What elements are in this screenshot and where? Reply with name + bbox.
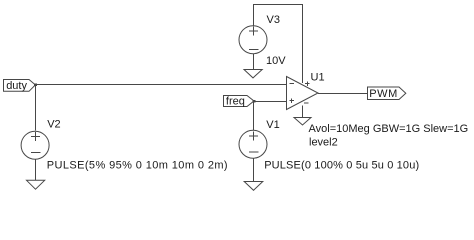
svg-text:freq: freq — [226, 95, 245, 107]
wire V1 bottom to ground — [253, 158, 255, 182]
wire freq to U1 non-inverting input — [254, 101, 287, 103]
svg-text:duty: duty — [6, 80, 27, 92]
svg-text:V2: V2 — [47, 118, 60, 130]
svg-text:level2: level2 — [309, 136, 338, 148]
voltage source V2 — [21, 131, 49, 159]
net flag PWM — [368, 87, 406, 100]
svg-text:PULSE(5% 95% 0 10m 10m 0 2m): PULSE(5% 95% 0 10m 10m 0 2m) — [47, 160, 228, 172]
wire duty to U1 inverting input — [35, 84, 287, 86]
svg-text:V1: V1 — [266, 119, 279, 131]
op-amp U1 V+ supply plus mark — [305, 82, 310, 87]
op-amp U1 inverting input minus mark — [290, 83, 295, 85]
svg-text:10V: 10V — [266, 55, 286, 67]
op-amp U1 triangle — [287, 77, 319, 110]
svg-text:PWM: PWM — [369, 88, 398, 100]
svg-text:PULSE(0 100% 0 5u 5u 0 10u): PULSE(0 100% 0 5u 5u 0 10u) — [264, 160, 419, 172]
wire V3 top stub — [253, 4, 255, 26]
wire top horizontal V3 to U1 supply — [253, 4, 302, 6]
voltage source V1 — [239, 130, 267, 158]
ground below U1 — [294, 118, 311, 126]
ground below V3 — [244, 70, 262, 78]
svg-text:V3: V3 — [267, 14, 280, 26]
op-amp U1 V- supply minus mark — [304, 102, 309, 104]
wire U1 V+ supply vertical — [302, 4, 304, 83]
wire V3 bottom to ground — [253, 54, 255, 70]
junction dot at duty node — [34, 84, 37, 87]
junction dot at freq node — [253, 100, 256, 103]
op-amp U1 non-inverting input plus mark — [290, 99, 295, 104]
ground below V2 — [27, 180, 45, 189]
svg-text:Avol=10Meg GBW=1G Slew=1G: Avol=10Meg GBW=1G Slew=1G — [309, 123, 469, 135]
net flag freq — [224, 96, 255, 107]
voltage source V3 — [239, 26, 267, 54]
wire U1 output to PWM — [318, 93, 368, 95]
wire V2 bottom to ground — [35, 159, 37, 181]
svg-text:U1: U1 — [311, 72, 325, 84]
wire freq junction down to V1 — [253, 101, 255, 130]
ground below V1 — [244, 182, 263, 191]
wire U1 V- supply to ground — [302, 106, 304, 118]
net flag duty — [4, 80, 36, 92]
wire duty junction down to V2 — [35, 84, 37, 131]
